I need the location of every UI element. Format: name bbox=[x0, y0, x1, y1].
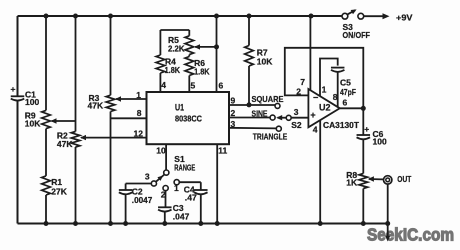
svg-text:2.2K: 2.2K bbox=[168, 43, 185, 53]
svg-text:10: 10 bbox=[156, 145, 166, 155]
svg-text:+: + bbox=[310, 110, 315, 120]
svg-text:27K: 27K bbox=[51, 187, 67, 197]
svg-text:.47: .47 bbox=[185, 193, 197, 203]
svg-text:SQUARE: SQUARE bbox=[252, 94, 284, 104]
svg-text:3: 3 bbox=[294, 107, 299, 117]
svg-text:1.8K: 1.8K bbox=[165, 65, 181, 75]
svg-text:12: 12 bbox=[134, 129, 144, 139]
svg-text:8: 8 bbox=[137, 108, 142, 118]
svg-text:8038CC: 8038CC bbox=[175, 114, 202, 124]
svg-text:SeekIC.com: SeekIC.com bbox=[367, 225, 454, 245]
svg-text:.0047: .0047 bbox=[132, 195, 153, 205]
svg-text:1: 1 bbox=[136, 90, 141, 100]
svg-text:4: 4 bbox=[161, 80, 166, 90]
svg-text:7: 7 bbox=[300, 77, 305, 87]
svg-text:2: 2 bbox=[231, 108, 236, 118]
svg-text:6: 6 bbox=[219, 81, 224, 91]
svg-text:OUT: OUT bbox=[397, 174, 412, 184]
svg-text:ON/OFF: ON/OFF bbox=[343, 30, 371, 40]
svg-text:SINE: SINE bbox=[252, 108, 268, 118]
svg-text:3: 3 bbox=[145, 172, 150, 182]
svg-text:100: 100 bbox=[373, 137, 387, 147]
svg-text:4: 4 bbox=[313, 125, 318, 135]
svg-text:−: − bbox=[313, 92, 318, 102]
svg-text:2: 2 bbox=[296, 87, 301, 97]
svg-text:3: 3 bbox=[231, 119, 236, 129]
svg-text:5: 5 bbox=[191, 81, 196, 91]
svg-text:U1: U1 bbox=[175, 103, 184, 113]
svg-text:TRIANGLE: TRIANGLE bbox=[253, 131, 288, 141]
svg-text:1K: 1K bbox=[346, 177, 358, 187]
svg-text:U2: U2 bbox=[319, 103, 331, 113]
svg-text:S2: S2 bbox=[291, 120, 302, 130]
svg-text:100: 100 bbox=[25, 97, 39, 107]
svg-text:47pF: 47pF bbox=[340, 87, 356, 97]
svg-text:1.8K: 1.8K bbox=[194, 67, 210, 77]
svg-text:47K: 47K bbox=[57, 139, 73, 149]
svg-text:47K: 47K bbox=[88, 100, 104, 110]
svg-text:RANGE: RANGE bbox=[174, 163, 195, 173]
svg-text:10K: 10K bbox=[257, 57, 273, 67]
svg-text:1: 1 bbox=[322, 85, 327, 95]
svg-text:+: + bbox=[364, 124, 369, 134]
svg-text:2: 2 bbox=[161, 190, 166, 200]
svg-text:8: 8 bbox=[333, 92, 338, 102]
svg-text:6: 6 bbox=[343, 98, 348, 108]
svg-text:+9V: +9V bbox=[396, 12, 413, 22]
svg-text:.047: .047 bbox=[173, 212, 190, 222]
svg-text:11: 11 bbox=[218, 145, 227, 155]
svg-text:10K: 10K bbox=[25, 119, 41, 129]
svg-text:1: 1 bbox=[174, 183, 179, 193]
svg-text:9: 9 bbox=[231, 96, 236, 106]
svg-text:+: + bbox=[11, 84, 16, 94]
svg-text:CA3130T: CA3130T bbox=[323, 120, 360, 130]
